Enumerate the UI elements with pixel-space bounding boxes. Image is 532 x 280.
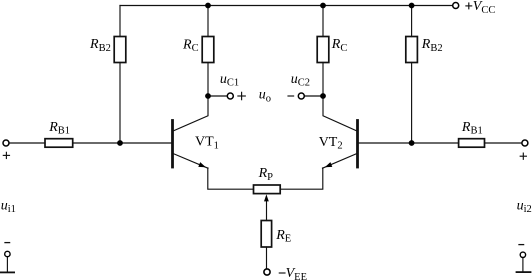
terminal +VCC circle xyxy=(453,3,459,9)
wire emitter VT1 to Rp xyxy=(208,168,254,189)
resistor RC left body xyxy=(202,37,214,63)
wire RB2-left vertical bottom xyxy=(119,63,121,144)
wire RB2-left vertical top xyxy=(119,6,121,37)
wire RC-right vertical top xyxy=(322,6,324,37)
arrowhead emitter VT1 xyxy=(198,162,206,167)
label plus input-right (drawn) xyxy=(520,155,526,157)
terminal ui1 minus sign xyxy=(5,242,10,244)
wire base VT2 left segment xyxy=(359,142,459,144)
svg-text:RP: RP xyxy=(258,166,274,183)
svg-text:RC: RC xyxy=(182,37,199,54)
svg-text:RB2: RB2 xyxy=(421,37,443,54)
terminal ui2 bottom bar xyxy=(517,271,531,273)
junction dot top RB2-right xyxy=(409,3,415,9)
label plus of +VCC (drawn) xyxy=(466,5,472,7)
svg-text:ui2: ui2 xyxy=(517,198,532,215)
terminal ui2 stem xyxy=(522,258,524,271)
terminal uC1 circle xyxy=(227,93,233,99)
terminal -VEE circle xyxy=(264,269,270,275)
label plus uC1 (drawn) xyxy=(238,95,245,97)
potentiometer RP body xyxy=(254,185,281,194)
junction dot collector VT1 xyxy=(205,93,211,99)
wire RB2-right vertical top xyxy=(411,6,413,37)
svg-text:uC2: uC2 xyxy=(291,72,310,89)
wire top rail xyxy=(120,5,452,7)
label minus of -VEE (drawn) xyxy=(279,272,285,274)
svg-text:VCC: VCC xyxy=(473,0,496,16)
svg-text:RB2: RB2 xyxy=(89,37,111,54)
terminal uC2 circle xyxy=(298,93,304,99)
junction dot collector VT2 xyxy=(320,93,326,99)
svg-text:uo: uo xyxy=(259,88,271,105)
svg-text:RE: RE xyxy=(275,228,291,245)
transistor VT1 emitter diagonal xyxy=(173,154,208,169)
svg-text:ui1: ui1 xyxy=(1,198,16,215)
label minus uC2 (drawn) xyxy=(288,95,294,97)
svg-text:uC1: uC1 xyxy=(220,72,239,89)
resistor RB1 right body xyxy=(459,139,485,148)
arrowhead RP wiper xyxy=(264,194,269,201)
wire RC-right to collector node xyxy=(322,63,324,97)
wire emitter VT2 to Rp xyxy=(280,168,323,189)
terminal ui1 stem xyxy=(6,257,8,271)
label plus input-left (drawn) xyxy=(3,154,9,156)
resistor RB2 right body xyxy=(406,37,418,63)
svg-text:RB1: RB1 xyxy=(461,120,483,137)
svg-text:VT1: VT1 xyxy=(195,135,219,152)
resistor RB1 left body xyxy=(45,139,73,148)
wire RC-left to collector node xyxy=(207,63,209,97)
wire RB2-right vertical bottom xyxy=(411,63,413,144)
terminal ui1 bottom bar xyxy=(1,271,14,273)
resistor RE body xyxy=(261,221,271,248)
wire base VT1 left segment xyxy=(10,142,45,144)
wire collector VT1 xyxy=(173,96,208,131)
wire RP wiper vertical xyxy=(266,200,268,221)
junction dot base VT1 xyxy=(117,140,123,146)
svg-text:RB1: RB1 xyxy=(48,120,70,137)
terminal ui2 circle xyxy=(520,252,525,257)
terminal input-left circle xyxy=(3,140,9,146)
wire uC2 stub xyxy=(305,95,323,97)
wire RC-left vertical top xyxy=(207,6,209,37)
wire uC1 stub xyxy=(208,95,227,97)
transistor VT2 emitter diagonal xyxy=(323,154,358,169)
terminal ui1 circle xyxy=(5,251,10,256)
arrowhead emitter VT2 xyxy=(325,162,333,167)
junction dot top RC-left xyxy=(205,3,211,9)
svg-text:VT2: VT2 xyxy=(319,135,343,152)
wire RE to VEE terminal xyxy=(266,247,268,268)
wire base VT1 right segment xyxy=(73,142,172,144)
junction dot top RC-right xyxy=(320,3,326,9)
terminal ui2 minus sign xyxy=(519,244,524,246)
svg-text:RC: RC xyxy=(331,37,348,54)
resistor RB2 left body xyxy=(114,37,126,63)
terminal input-right circle xyxy=(522,140,528,146)
resistor RC right body xyxy=(317,37,329,63)
wire base VT2 right segment xyxy=(485,142,522,144)
wire collector VT2 xyxy=(323,96,357,131)
junction dot base VT2 xyxy=(409,140,415,146)
transistor VT1 base bar xyxy=(171,121,174,168)
svg-text:VEE: VEE xyxy=(286,266,307,280)
transistor VT2 base bar xyxy=(356,121,359,168)
